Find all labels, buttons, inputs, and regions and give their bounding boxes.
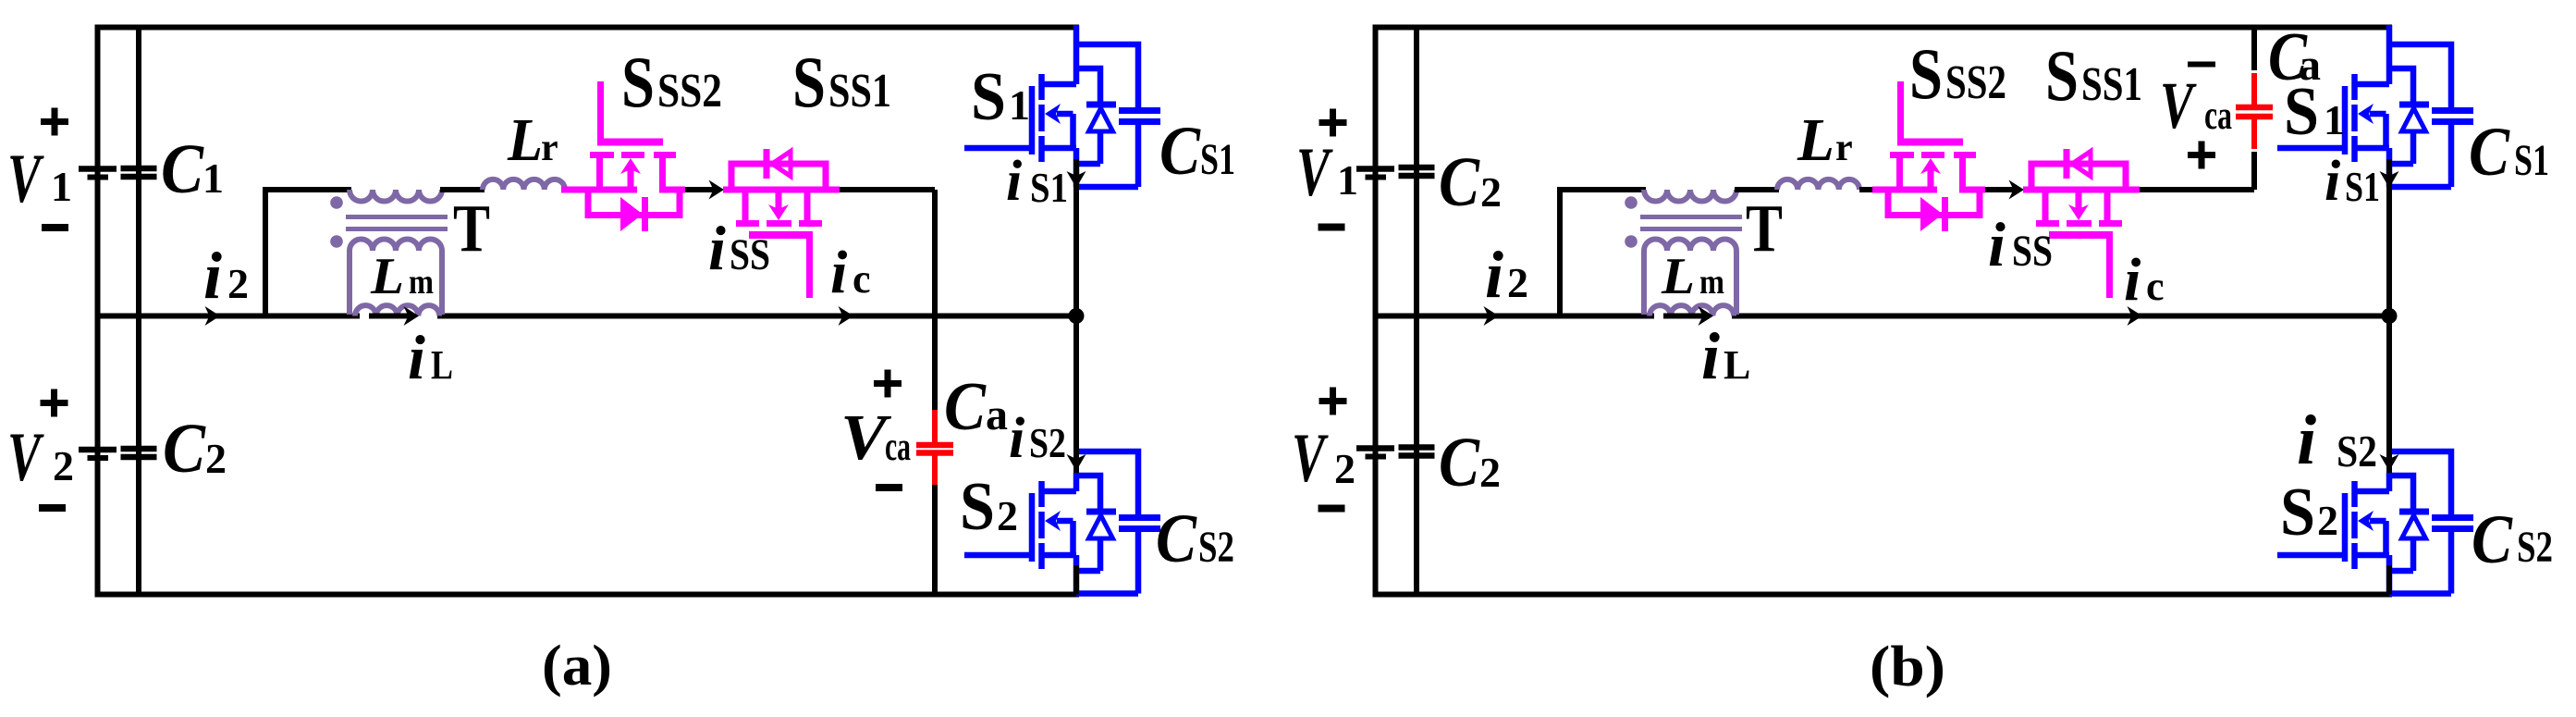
label CS1 (a) [1159,113,1235,190]
label i2 (b) [1485,238,1528,312]
transistor S2 (b) gate lead [2277,552,2345,559]
svg-text:S2: S2 [2337,426,2377,476]
label SSS2 (b) [1909,33,2006,114]
transistor S2 gate bar [1029,493,1036,562]
snubber capacitor branch of S1 [1076,44,1138,107]
svg-text:2: 2 [1334,445,1355,492]
transistor S1 (b) gate bar [2342,86,2349,155]
label SSS1 (a) [792,42,891,122]
svg-text:2: 2 [1480,168,1502,216]
transistor S2 (b) channel segments [2351,481,2358,569]
label iL (a) [408,322,453,392]
svg-text:S2: S2 [1029,420,1066,466]
label S1 (b) [2284,74,2345,150]
svg-text:S: S [2280,475,2315,550]
transformer T polarity dot secondary [330,235,343,248]
label Vca (a) [840,402,911,474]
transistor S1 source lead [1073,148,1080,187]
snubber capacitor return of S2 [1076,532,1138,594]
switch SSS2 source lead [561,158,637,190]
capacitor C1 [121,168,157,177]
label Lm (a) [370,248,434,305]
svg-text:i: i [2297,402,2316,479]
label CS2 (b) [2472,501,2553,578]
transistor S2 (b) body diode cathode bar [2399,509,2429,515]
svg-text:SS1: SS1 [828,65,891,117]
label Lr (b) [1797,106,1853,174]
transistor S1 (b) source stub [2354,145,2389,152]
svg-text:V: V [7,141,44,217]
svg-text:L: L [370,248,404,305]
transistor S1 (b) source lead [2386,148,2393,187]
transformer T polarity dot primary [330,196,343,209]
svg-text:V: V [2160,68,2197,142]
transistor S1 (b) body diode anode lead [2389,131,2413,164]
label + of Vca (b) [2188,142,2215,169]
wire to capacitor Ca (b) [2251,152,2257,190]
wire S1 source to middle rail (b) [2386,159,2392,316]
svg-text:SS2: SS2 [657,65,722,117]
svg-text:SS1: SS1 [2081,58,2142,111]
transistor S1 (b) drain stub [2354,81,2389,88]
svg-text:r: r [541,127,558,169]
label iS1 (a) [1006,150,1068,213]
switch SSS1 gate lead [2106,235,2113,298]
label Ca (b) [2268,19,2321,95]
svg-text:C: C [1439,143,1480,221]
switch SSS2 body diode loop [588,187,680,216]
transistor S2 (b) body diode [2402,515,2426,538]
svg-text:2: 2 [2317,497,2338,544]
svg-text:C: C [163,410,206,488]
wire top rail (a) [95,25,1080,31]
label - of V2 [39,504,66,512]
svg-text:1: 1 [1337,156,1358,204]
label Lm (b) [1661,248,1724,305]
svg-text:ca: ca [2204,93,2232,138]
label + of V1 (b) [1319,109,1347,137]
voltage source V1 (b) [1356,169,1394,178]
transistor S1 (b) gate lead [2277,145,2345,152]
svg-text:V: V [7,419,44,496]
wire transformer to Lr (b) [1735,187,1779,192]
wire middle rail to S2 drain (b) [2386,316,2392,474]
switch SSS2 channel segments [590,152,676,158]
transistor S2 gate lead [964,552,1032,559]
snubber capacitor branch of S2 (b) [2389,451,2451,514]
transistor S2 channel segments [1038,481,1045,569]
switch SSS2 body diode [1920,197,1945,231]
svg-text:S2: S2 [2517,523,2553,572]
transistor S1 (b) body diode branch [2389,68,2413,102]
label C1 [161,130,224,208]
svg-text:T: T [1746,191,1783,266]
wire SSS1 to Ca branch (a) [840,187,935,192]
svg-text:i: i [1701,319,1720,393]
label V1 [7,141,72,217]
svg-text:S: S [971,59,1006,135]
switch SSS1 source stub [804,190,811,220]
label V1 (b) [1296,134,1358,211]
svg-text:SS: SS [730,230,770,279]
inductor Lr [483,179,565,190]
svg-text:1: 1 [202,155,224,202]
transistor S2 drain lead [1073,473,1080,491]
svg-text:L: L [1797,106,1834,174]
label S2 (a) [960,469,1018,545]
voltage source V2 (b) [1356,449,1394,457]
label iSS (b) [1988,209,2053,279]
svg-text:T: T [453,191,490,266]
switch SSS2 body arrow [1920,158,1941,192]
svg-text:1: 1 [1009,81,1030,129]
transistor S1 body diode branch [1076,68,1100,102]
node junction dot (b) [2382,308,2398,324]
transistor S1 gate bar [1029,86,1036,155]
transistor S1 source stub [1041,145,1076,152]
switch SSS2 gate lead [1897,81,1904,146]
svg-text:2: 2 [53,442,74,489]
inductor Lr [1777,179,1859,190]
capacitor Ca (auxiliary, red) [916,410,953,485]
svg-text:2: 2 [227,260,249,307]
transistor S2 (b) body diode branch [2389,476,2413,509]
snubber capacitor plates of S1 (b) [2432,111,2473,122]
wire left edge vertical (a) [95,25,101,598]
switch SSS2 gate bar [597,139,663,146]
label iS1 (b) [2325,150,2380,213]
svg-text:SS2: SS2 [1945,56,2006,109]
transformer T secondary winding [350,240,442,315]
capacitor C2 top (b) [1399,167,1435,176]
switch SSS1 drain stub [2042,190,2049,220]
switch SSS1 source stub [2104,190,2111,220]
label S2 (b) [2280,475,2338,550]
label Vca (b) [2160,68,2232,142]
switch SSS2 gate lead [597,81,604,146]
arrow ic (b) [2128,306,2143,326]
svg-text:C: C [1156,501,1197,577]
wire to capacitor Ca [932,190,938,413]
wire input capacitor branch vertical (a) [136,25,141,598]
svg-text:C: C [2469,114,2510,191]
label + of V1 [41,108,68,136]
label i2 (a) [203,239,249,313]
svg-text:L: L [507,106,543,174]
label - of V2 (b) [1319,505,1345,513]
svg-text:V: V [1296,134,1333,211]
svg-text:S1: S1 [2514,136,2549,185]
wire bottom rail (a) [95,592,1080,598]
switch SSS1 gate lead [806,235,813,298]
switch SSS1 channel segments [736,220,822,227]
svg-text:m: m [409,263,434,302]
switch SSS1 gate bar [749,231,813,239]
svg-text:a: a [986,390,1008,439]
arrow iS2 (a) [1067,454,1086,471]
label Ca (a) [944,369,1008,445]
arrow iS2 (b) [2380,454,2399,471]
label C2 top (b) [1439,143,1502,221]
svg-text:S: S [1909,33,1943,114]
arrow i2 (b) [1484,306,1500,326]
wire middle rail (b) [1373,314,2393,319]
switch SSS2 channel segments [1890,152,1976,158]
svg-text:c: c [853,256,871,302]
label - of V1 [42,224,68,231]
label C2 [163,410,227,488]
label iL (b) [1701,319,1750,393]
svg-text:S1: S1 [2345,164,2380,210]
switch SSS1 body diode [2067,149,2091,179]
svg-text:C: C [944,369,987,445]
inductor Lm magnetizing winding [355,305,439,315]
svg-text:i: i [1009,407,1024,470]
transformer T secondary winding [1644,240,1736,315]
svg-text:V: V [1292,420,1329,497]
svg-text:C: C [161,130,204,208]
switch SSS2 body arrow [620,158,641,192]
svg-text:(a): (a) [542,635,612,698]
wire S1 source to middle rail (a) [1073,159,1079,316]
node junction dot (a) [1069,308,1085,324]
transistor S2 (b) drain stub [2354,488,2389,495]
wire middle rail to S2 drain (a) [1073,316,1079,474]
wire left edge vertical (b) [1373,25,1379,598]
transistor S1 (b) body diode [2402,108,2426,131]
svg-text:L: L [1723,342,1750,388]
transistor S2 source stub [1041,552,1076,559]
svg-text:S: S [2045,35,2079,116]
svg-text:S1: S1 [1200,135,1235,184]
snubber capacitor plates of S1 [1119,111,1160,122]
transformer T polarity dot secondary [1625,235,1638,248]
svg-text:L: L [1661,248,1695,305]
wire and arrow SSS2 to SSS1 (b) [1985,180,2024,200]
transistor S2 body arrow [1045,511,1073,555]
transistor S2 (b) source stub [2354,552,2389,559]
wire top rail (b) [1373,25,2393,31]
svg-text:SS: SS [2012,227,2053,276]
label SSS2 (a) [621,42,722,122]
label iSS (a) [708,213,770,283]
arrow i2 (a) [205,306,221,326]
wire transformer riser (b) [1560,190,1646,316]
switch SSS1 drain lead [723,187,840,193]
switch SSS1 body arrow [768,187,789,220]
wire middle rail (a) [95,314,1080,319]
svg-text:1: 1 [51,163,72,210]
svg-text:i: i [708,213,726,283]
transistor S2 source lead [1073,555,1080,594]
switch SSS1 drain lead [2023,187,2140,193]
switch SSS1 body arrow [2068,187,2089,220]
snubber capacitor return of S1 (b) [2389,125,2451,187]
label S1 (a) [971,59,1030,135]
svg-text:C: C [1439,424,1480,501]
svg-text:C: C [2472,501,2513,578]
svg-text:S2: S2 [1198,523,1234,572]
transistor S1 (b) channel segments [2351,74,2358,162]
transistor S1 body diode cathode bar [1086,102,1116,108]
svg-text:i: i [1988,209,2006,279]
label - of Vca (b) [2188,62,2215,68]
arrow iS1 (a) [1067,171,1086,188]
svg-text:S: S [2284,74,2319,150]
svg-text:2: 2 [1507,259,1528,306]
snubber capacitor plates of S2 [1119,518,1160,529]
transformer T primary winding [1644,190,1736,202]
switch SSS1 body diode [767,149,791,179]
label + of V2 (b) [1319,388,1347,415]
transistor S2 (b) body diode anode lead [2389,538,2413,571]
svg-text:i: i [1006,150,1022,213]
transformer T primary winding [350,190,442,202]
switch SSS2 body diode [620,197,645,231]
svg-text:S: S [792,42,826,122]
wire transformer to Lr (a) [440,187,485,192]
label Lr (a) [507,106,558,174]
transistor S2 body diode cathode bar [1086,509,1116,515]
switch SSS2 gate bar [1897,139,1963,146]
label - of V1 (b) [1319,224,1345,231]
transistor S1 gate lead [964,145,1032,152]
wire S2 source to bottom rail (b) [2386,565,2392,595]
label - of Vca (a) [876,484,902,491]
transistor S1 body arrow [1045,104,1073,148]
capacitor C2 [121,449,157,457]
label C2 bottom (b) [1439,424,1501,501]
transistor S2 (b) gate bar [2342,493,2349,562]
svg-text:i: i [2325,150,2340,213]
label SSS1 (b) [2045,35,2142,116]
switch SSS1 body diode loop [731,164,826,192]
transistor S2 (b) body arrow [2358,511,2386,555]
wire Lr to SSS2 (b) [1859,187,1873,192]
arrow ic (a) [839,306,854,326]
label ic (a) [830,239,871,306]
transistor S2 body diode [1089,515,1113,538]
svg-text:S1: S1 [1030,165,1068,211]
label ic (b) [2124,246,2165,314]
svg-text:m: m [1699,263,1724,302]
switch SSS1 gate bar [2049,231,2113,239]
switch SSS1 channel segments [2036,220,2122,227]
transistor S2 drain stub [1041,488,1076,495]
transformer T core [1640,217,1742,229]
transistor S2 (b) drain lead [2386,473,2393,491]
svg-text:i: i [1485,238,1503,312]
switch SSS1 drain stub [742,190,749,220]
label + of Vca (a) [874,370,902,398]
svg-text:2: 2 [205,435,227,482]
label iS2 (b) [2297,402,2377,479]
svg-text:i: i [408,322,425,392]
transformer T core [346,217,448,229]
snubber capacitor return of S2 (b) [2389,532,2451,594]
svg-text:2: 2 [997,492,1018,539]
label CS1 (b) [2469,114,2549,191]
wire and arrow SSS2 to SSS1 (a) [685,180,724,200]
switch SSS2 drain lead [1963,158,1986,190]
transistor S1 drain stub [1041,81,1076,88]
switch SSS2 drain lead [663,158,686,190]
svg-text:i: i [203,239,222,313]
transistor S2 body diode anode lead [1076,538,1100,571]
transformer T polarity dot primary [1625,196,1638,209]
label V2 (b) [1292,420,1355,497]
svg-text:ca: ca [885,424,911,469]
transistor S1 (b) drain lead [2386,25,2393,84]
svg-text:i: i [830,239,848,306]
arrow iS1 (b) [2380,171,2399,188]
snubber capacitor plates of S2 (b) [2432,518,2473,529]
switch SSS2 body diode loop [1888,187,1980,216]
svg-text:S: S [960,469,995,545]
switch SSS2 source lead [1872,158,1937,190]
voltage source V1 [79,169,117,178]
capacitor Ca (b) (auxiliary, red) [2236,73,2273,149]
transistor S1 (b) body arrow [2358,104,2386,148]
snubber capacitor branch of S2 [1076,451,1138,514]
capacitor C2 bottom (b) [1399,448,1435,456]
snubber capacitor return of S1 [1076,125,1138,187]
wire transformer riser (a) [265,190,351,316]
svg-text:c: c [2146,264,2165,309]
svg-text:2: 2 [1479,449,1501,496]
svg-text:1: 1 [2324,96,2345,143]
transistor S1 channel segments [1038,74,1045,162]
inductor Lm magnetizing winding [1650,305,1734,315]
snubber capacitor branch of S1 (b) [2389,44,2451,107]
svg-text:S: S [621,42,655,122]
svg-text:i: i [2124,246,2141,314]
svg-text:r: r [1835,127,1853,169]
label V2 [7,419,74,496]
label iS2 (a) [1009,407,1066,470]
switch SSS1 body diode loop [2031,164,2126,192]
svg-text:(b): (b) [1870,636,1945,698]
voltage source V2 [79,450,117,458]
label + of V2 [41,389,68,417]
transistor S2 (b) source lead [2386,555,2393,594]
wire S2 source to bottom rail (a) [1073,565,1079,595]
svg-text:C: C [1159,113,1201,190]
wire bottom rail (b) [1373,592,2393,598]
transistor S1 (b) body diode cathode bar [2399,102,2429,108]
transistor S1 body diode [1089,108,1113,131]
label CS2 (a) [1156,501,1234,577]
transistor S1 body diode anode lead [1076,131,1100,164]
wire SSS1 to Ca branch (b) [2140,187,2254,192]
transistor S1 drain lead [1073,25,1080,84]
arrow iL (a) [369,306,419,326]
svg-text:L: L [431,342,453,388]
transistor S2 body diode branch [1076,476,1100,509]
arrow iL (b) [1663,306,1713,326]
wire input capacitor branch vertical (b) [1414,25,1419,598]
